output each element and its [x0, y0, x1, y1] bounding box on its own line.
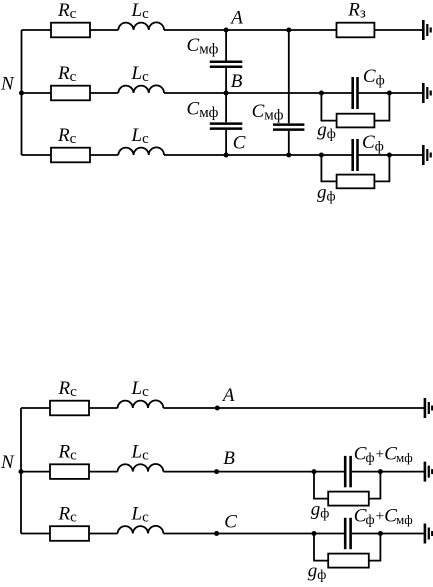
- svg-text:Lс: Lс: [131, 442, 150, 464]
- svg-text:Rз: Rз: [347, 0, 366, 22]
- svg-text:Lс: Lс: [131, 378, 150, 400]
- svg-text:+: +: [376, 447, 384, 463]
- svg-text:Rс: Rс: [57, 0, 77, 22]
- svg-text:Cмф: Cмф: [252, 101, 284, 124]
- svg-text:Cф: Cф: [362, 132, 384, 155]
- svg-text:A: A: [221, 385, 235, 406]
- svg-text:Lс: Lс: [131, 504, 150, 526]
- svg-text:N: N: [0, 452, 15, 473]
- svg-text:C: C: [224, 511, 237, 532]
- svg-text:Cмф: Cмф: [187, 99, 219, 122]
- svg-text:B: B: [223, 448, 235, 469]
- svg-text:ф: ф: [366, 513, 375, 528]
- svg-text:Cмф: Cмф: [187, 35, 219, 58]
- svg-text:мф: мф: [396, 450, 413, 465]
- svg-text:gф: gф: [311, 499, 330, 522]
- svg-text:gф: gф: [317, 120, 336, 143]
- svg-text:Cф: Cф: [363, 66, 385, 89]
- svg-text:A: A: [229, 8, 243, 29]
- svg-text:gф: gф: [317, 182, 336, 205]
- svg-text:Rс: Rс: [58, 504, 78, 526]
- svg-text:Lс: Lс: [131, 125, 150, 147]
- svg-text:C: C: [233, 133, 246, 154]
- svg-text:Rс: Rс: [57, 63, 77, 85]
- svg-text:Rс: Rс: [58, 378, 78, 400]
- svg-text:ф: ф: [366, 451, 375, 466]
- svg-text:N: N: [0, 74, 15, 95]
- svg-text:мф: мф: [396, 512, 413, 527]
- svg-text:gф: gф: [308, 561, 327, 584]
- svg-text:Rс: Rс: [58, 442, 78, 464]
- svg-text:Rс: Rс: [57, 125, 77, 147]
- svg-text:B: B: [231, 71, 243, 92]
- svg-text:+: +: [376, 509, 384, 525]
- svg-text:Lс: Lс: [131, 63, 150, 85]
- svg-text:Lс: Lс: [131, 0, 150, 22]
